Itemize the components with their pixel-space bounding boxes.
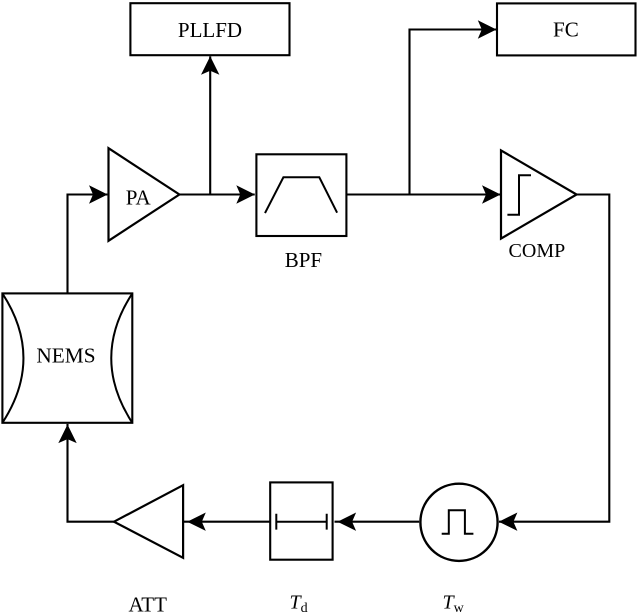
wire Td to ATT: [184, 521, 270, 523]
svg-text:NEMS: NEMS: [36, 343, 95, 367]
arrowhead into ATT: [187, 513, 206, 531]
FC box: [497, 3, 636, 55]
resonator NEMS: [2, 293, 132, 422]
arrowhead into PLLFD: [201, 56, 219, 75]
svg-text:ATT: ATT: [128, 593, 167, 612]
wire BPF output to COMP input: [346, 193, 500, 195]
wire PA output to BPF input: [179, 193, 254, 195]
svg-text:Td: Td: [290, 592, 308, 612]
svg-text:BPF: BPF: [285, 248, 322, 272]
attenuator ATT: [114, 485, 183, 612]
band-pass filter BPF: [256, 154, 346, 272]
svg-text:FC: FC: [553, 18, 579, 42]
amplifier PA: [109, 148, 180, 241]
svg-text:PA: PA: [126, 186, 152, 210]
arrowhead into NEMS: [58, 425, 76, 444]
svg-text:COMP: COMP: [509, 240, 566, 262]
wire Tw to Td: [335, 521, 420, 523]
arrowhead into COMP: [482, 185, 501, 203]
wire branch up and right to FC: [410, 30, 497, 195]
arrowhead into FC: [478, 20, 497, 38]
pulse generator Tw: [420, 484, 497, 561]
arrowhead into Tw circle: [499, 513, 518, 531]
svg-text:PLLFD: PLLFD: [178, 18, 242, 42]
arrowhead into Td: [338, 513, 357, 531]
comparator COMP: [501, 150, 577, 261]
arrowhead into BPF: [236, 185, 255, 203]
svg-text:Tw: Tw: [443, 592, 465, 612]
arrowhead into PA: [89, 185, 108, 203]
wire COMP output down right side to Tw: [499, 195, 609, 522]
wire NEMS top to PA input: [68, 195, 108, 293]
wire ATT output to NEMS bottom: [68, 424, 115, 522]
wire branch up to PLLFD: [209, 56, 211, 194]
PLLFD box: [130, 3, 289, 55]
delay element Td: [270, 482, 332, 559]
